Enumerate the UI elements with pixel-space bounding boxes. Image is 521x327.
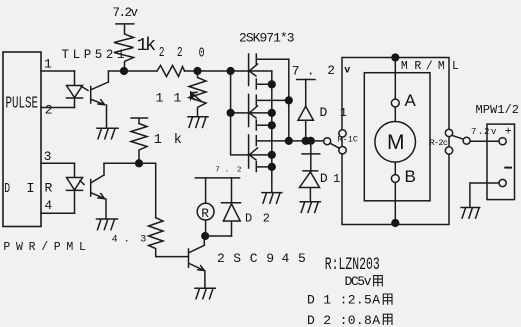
resistor R2 220 <box>157 66 185 77</box>
trimmer arrow <box>191 92 202 101</box>
connector box PWR/PML <box>3 52 41 227</box>
optocoupler U2 phototransistor <box>80 163 106 218</box>
transistor Q1 2SC945 <box>189 236 205 288</box>
svg-text:/: / <box>426 60 433 73</box>
svg-text:1: 1 <box>156 91 164 106</box>
svg-text:R: R <box>201 206 209 221</box>
node dot (Q1 collector) <box>201 232 209 240</box>
resistor R3 1k <box>131 124 147 164</box>
node dot (R3 bottom) <box>135 159 143 167</box>
svg-text:PULSE: PULSE <box>6 93 39 112</box>
svg-text:D: D <box>320 105 328 120</box>
diode D1 lower with bars <box>300 141 320 202</box>
svg-text:B: B <box>405 167 416 186</box>
ground (trimmer) <box>188 117 208 128</box>
svg-text:D 1 :2.5A: D 1 :2.5A <box>307 293 381 308</box>
svg-text:DC5v: DC5v <box>345 274 372 289</box>
svg-text:0: 0 <box>199 45 205 61</box>
node dot (box top) <box>391 53 399 61</box>
svg-text:3: 3 <box>44 149 52 164</box>
wire node1 to R2 <box>124 70 157 72</box>
svg-text:D: D <box>4 181 10 197</box>
wire A to motor <box>394 108 396 121</box>
svg-text:4: 4 <box>44 198 52 213</box>
wire - to ground <box>470 183 499 207</box>
socket contacts (motor right) <box>445 129 452 136</box>
svg-text:I: I <box>26 181 34 197</box>
switch wire <box>330 143 339 148</box>
motor M <box>375 122 416 163</box>
terminal - <box>499 179 506 186</box>
node dot (gate bus M2) <box>227 109 235 117</box>
supply terminal (D1 top) <box>297 79 315 81</box>
svg-text:v: v <box>491 127 497 137</box>
svg-text:2: 2 <box>263 212 270 226</box>
svg-text:D: D <box>320 171 328 186</box>
supply terminal 7.2v <box>116 24 134 33</box>
MOSFET Q2 2SK971 <box>231 54 289 89</box>
svg-text:2: 2 <box>484 127 489 137</box>
svg-text:.: . <box>124 234 130 245</box>
source bus line A <box>271 71 273 192</box>
svg-text:1: 1 <box>333 172 340 186</box>
ground (Q1 emitter) <box>195 288 215 299</box>
svg-text:2: 2 <box>217 251 225 266</box>
resistor R1 1k <box>114 34 134 68</box>
svg-text:7: 7 <box>215 167 220 175</box>
plug contact (left) <box>324 138 331 145</box>
svg-text:M: M <box>438 60 445 73</box>
connector box MPW <box>487 124 515 200</box>
node dots on line A <box>268 80 276 88</box>
svg-text:R: R <box>414 60 421 73</box>
wire R2 to node2 <box>185 70 198 72</box>
wire motor to B <box>394 163 396 174</box>
svg-text:+: + <box>505 125 512 138</box>
svg-text:D: D <box>245 212 252 226</box>
optocoupler U2 TLP521 LED <box>67 163 83 213</box>
svg-text:2: 2 <box>45 103 53 118</box>
wire pin4 <box>41 212 75 214</box>
svg-text:R: R <box>45 181 53 196</box>
switch wire (right) <box>452 135 464 139</box>
svg-text:7: 7 <box>471 127 476 137</box>
svg-text:M: M <box>387 131 405 154</box>
svg-text:1: 1 <box>154 133 162 148</box>
socket contacts (motor left) <box>339 130 346 137</box>
svg-text:2: 2 <box>237 167 242 175</box>
label - <box>505 167 511 169</box>
inner motor box <box>364 73 430 201</box>
svg-text:C: C <box>250 251 258 266</box>
wire down to R4 <box>155 163 157 217</box>
MOSFET Q3 2SK971 <box>249 95 289 130</box>
terminal A <box>391 99 399 107</box>
svg-text:2SK971*3: 2SK971*3 <box>239 30 295 45</box>
wire top to A <box>394 58 396 100</box>
svg-text:R:LZN203: R:LZN203 <box>325 255 380 275</box>
svg-text:TLP521: TLP521 <box>62 48 131 62</box>
trimmer VR 11k <box>189 71 206 117</box>
wire collector node <box>205 235 231 237</box>
svg-text:1: 1 <box>340 106 347 120</box>
svg-text:k: k <box>174 133 182 148</box>
node dot2 <box>193 67 201 75</box>
svg-text:9: 9 <box>266 251 274 266</box>
svg-text:7.2v: 7.2v <box>113 6 139 20</box>
svg-text:.: . <box>478 127 483 137</box>
optocoupler U1 TLP521 LED <box>67 71 83 108</box>
MOSFET Q4 2SK971 <box>249 135 324 172</box>
drain bus line B <box>288 59 290 141</box>
wire plug to + <box>470 140 499 142</box>
CRD R (LZN203) circle <box>205 178 207 236</box>
svg-text:3: 3 <box>140 234 146 245</box>
terminal B <box>391 175 399 183</box>
node dot1 <box>120 67 128 75</box>
diode D2 <box>222 178 241 236</box>
svg-text:5: 5 <box>298 251 306 266</box>
svg-text:2: 2 <box>177 45 183 61</box>
svg-text:.: . <box>307 64 315 79</box>
svg-text:MPW1/2: MPW1/2 <box>476 103 520 117</box>
wire pin1 <box>41 70 75 72</box>
diode D1 upper <box>298 80 313 141</box>
svg-text:7: 7 <box>292 64 300 79</box>
svg-text:4: 4 <box>112 234 118 245</box>
svg-text:2: 2 <box>327 63 335 78</box>
svg-text:2: 2 <box>159 45 165 61</box>
svg-text:S: S <box>233 251 241 266</box>
svg-text:1: 1 <box>44 57 52 72</box>
node dot3 <box>227 67 235 75</box>
svg-text:4: 4 <box>282 251 290 266</box>
supply terminal (R3 top) <box>131 118 147 124</box>
svg-text:R-1C: R-1C <box>338 135 359 145</box>
motor connector box MR/ML <box>342 58 449 225</box>
node dots on line B <box>285 96 293 104</box>
svg-text:1k: 1k <box>137 35 157 56</box>
svg-text:k: k <box>189 90 197 105</box>
optocoupler U1 phototransistor <box>80 71 124 128</box>
ground (U1 emitter) <box>97 128 118 139</box>
resistor R4 4.3k <box>149 218 189 257</box>
svg-text:1: 1 <box>174 91 182 106</box>
wire node2 to node3 <box>198 70 231 72</box>
node dot (box bottom) <box>391 219 399 227</box>
ground (source bus) <box>262 193 282 204</box>
wire B to box bottom <box>394 183 396 225</box>
ground (MPW -) <box>461 208 480 219</box>
plug contact (right) <box>463 137 470 144</box>
svg-text:.: . <box>225 167 230 175</box>
wire pin3 <box>41 162 75 164</box>
wire DIR collector row <box>104 162 156 164</box>
gate bus wire <box>231 71 249 155</box>
svg-text:R-2c: R-2c <box>430 138 449 148</box>
supply terminal 7.2v (R circle / D2) <box>195 177 239 179</box>
ground (U2 emitter) <box>97 219 118 230</box>
svg-text:D 2 :0.8A: D 2 :0.8A <box>307 313 381 327</box>
wire pin2 <box>41 107 75 109</box>
svg-text:A: A <box>405 91 417 110</box>
node dots on drain bus <box>302 137 310 145</box>
ground (D1 lower) <box>300 202 320 213</box>
svg-text:M: M <box>401 60 408 73</box>
svg-text:v: v <box>344 65 350 76</box>
svg-text:L: L <box>452 60 459 73</box>
terminal + <box>499 138 506 145</box>
